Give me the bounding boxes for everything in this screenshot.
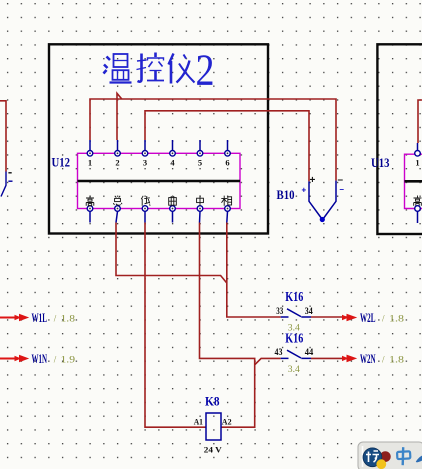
title char 控 [137,53,165,82]
wire: U12 pins1+2 to B10 right [90,93,336,180]
component U13 body partial [405,154,422,208]
title 温控仪2 [104,46,215,95]
watermark logo glyph 将 [366,451,379,462]
svg-text:W2L: W2L [360,310,376,325]
B10 thermocouple [309,181,336,219]
component U12 body [78,153,241,208]
contact K16 upper [276,289,313,333]
wire: 中 pin down to node, K8 right riser [200,223,255,428]
svg-text:W1L: W1L [32,310,48,325]
svg-text:+: + [310,175,316,186]
relay coil K8 [194,394,232,455]
pin centre dots [89,152,91,154]
U12 pins bottom stubs [90,211,228,222]
U12 pins top circles [87,151,230,157]
arrowhead W2N [347,355,358,363]
wire: U13 pin1 up [418,100,422,143]
U12 pins bottom circles [87,206,230,212]
box U12 outer [49,44,268,233]
arrowhead W1N [19,355,29,363]
svg-text:1.8: 1.8 [61,314,76,324]
svg-text:3: 3 [143,158,147,168]
svg-text:3.4: 3.4 [288,364,301,374]
title char 仪 [169,54,195,84]
svg-text:A2: A2 [222,418,232,427]
port W2L [342,310,405,325]
svg-text:1: 1 [88,158,92,168]
B10 polarity marks [302,175,345,195]
svg-text:43: 43 [275,347,283,357]
svg-text:K16: K16 [285,289,303,304]
svg-text:A1: A1 [194,418,203,427]
U13 bottom pin [415,206,421,212]
arrowhead W1L [19,314,29,322]
svg-text:U12: U12 [52,155,71,170]
contact blades K16 lower [281,350,311,358]
pin label 相 [221,196,231,206]
watermark logo circles [380,451,391,462]
svg-text:W1N: W1N [32,351,48,366]
pin label 高 [86,196,94,206]
U12 pin numbers [88,158,230,168]
U13 pin1 stub+circle [417,143,419,150]
svg-text:1.8: 1.8 [389,355,405,365]
U12 internal bar [78,180,241,183]
svg-text:K8: K8 [205,394,220,409]
U13 internal bar [405,180,422,183]
U13 bottom pin cjk label 高 [414,196,422,206]
svg-text:–: – [340,185,345,194]
contact blades K16 upper [281,309,311,317]
wire stub W1L [0,317,20,319]
watermark toolbar [358,442,422,469]
wire: U12 pin3 to B10 left [145,111,309,182]
pin label 中 [197,195,204,205]
title char 温 [104,54,132,83]
wire stub W1N [0,358,20,360]
svg-text:B10: B10 [277,188,295,202]
svg-text:24 V: 24 V [204,446,222,455]
svg-text:U13: U13 [371,155,390,170]
port W1L [0,310,76,325]
watermark panel [358,442,422,469]
partial char right edge swoosh [416,456,422,463]
svg-text:6: 6 [225,158,229,168]
pin label 低 [141,196,150,206]
svg-text:+: + [302,186,307,195]
wire: left-edge thermocouple remnant [0,101,6,172]
watermark grip [362,446,364,467]
port W1N [0,351,76,366]
svg-text:34: 34 [305,306,313,316]
svg-text:2: 2 [196,46,215,95]
wire: 总 pin down/right [116,223,227,284]
port W2N [342,351,405,366]
svg-text:33: 33 [276,306,283,316]
arrowhead W2L [347,314,358,322]
wire: contact 34 to W2L [311,316,348,318]
pin label 曲 [169,196,177,205]
U12 bottom pin cjk labels 高总低曲中相 [86,195,232,205]
svg-text:2: 2 [115,158,119,168]
svg-text:44: 44 [305,347,314,357]
pin label 总 [113,196,122,205]
contact K16 lower [275,330,314,374]
K8 coil box [206,413,221,440]
wire: 相 pin down to contact K16-33 [227,223,281,318]
svg-text:1.8: 1.8 [389,314,405,324]
wire: jog to contact K16-43 [255,358,281,364]
left-edge minus marks [8,172,11,174]
box U13 outer [377,44,422,234]
wire: contact 44 to W2N [311,357,348,359]
svg-text:5: 5 [198,158,202,168]
svg-text:1.9: 1.9 [61,355,76,365]
svg-text:K16: K16 [285,330,303,345]
U12 pins top stubs [90,140,228,150]
wire: 低 pin down to K8 left [145,223,206,428]
watermark char 中 [397,447,410,465]
svg-text:–: – [338,175,344,186]
left-edge thermocouple blue part [1,172,6,197]
svg-text:W2N: W2N [360,351,376,366]
svg-text:1: 1 [415,158,419,168]
